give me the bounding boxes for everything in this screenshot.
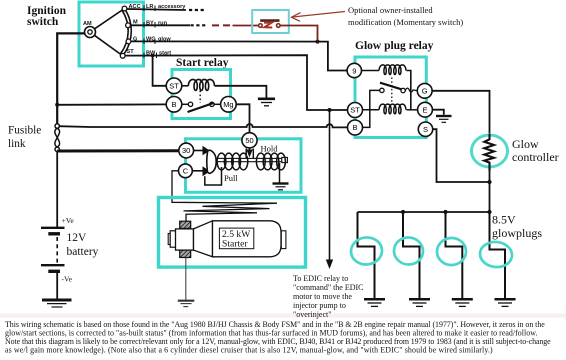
svg-text:E: E bbox=[422, 105, 427, 114]
arrow 50 bbox=[246, 150, 252, 158]
ground glowplug 2 bbox=[409, 299, 430, 306]
wire hold coil to ground bbox=[279, 163, 281, 183]
ground hold coil bbox=[273, 184, 289, 190]
ground E bbox=[436, 116, 452, 122]
glow plug bus bbox=[358, 211, 490, 213]
svg-text:glow: glow bbox=[158, 37, 171, 43]
svg-text:B: B bbox=[352, 123, 357, 132]
svg-text:C: C bbox=[183, 167, 189, 176]
contact M bbox=[126, 20, 138, 28]
contact ST bbox=[120, 49, 134, 58]
terminal AM bbox=[83, 21, 96, 38]
wire glow WG bbox=[131, 37, 348, 71]
glowplug 1 ring bbox=[350, 236, 384, 266]
wire coil1 to E node bbox=[407, 71, 411, 110]
wire S to controller leg bbox=[433, 129, 490, 182]
dotted actuator link start relay bbox=[199, 91, 201, 104]
svg-text:run: run bbox=[158, 21, 168, 27]
svg-text:controller: controller bbox=[512, 150, 559, 164]
wire battery to start relay B bbox=[57, 103, 166, 105]
battery cell 2 bbox=[41, 265, 65, 271]
glow relay terminal S bbox=[418, 122, 432, 136]
wire E to ground bbox=[432, 110, 443, 115]
node battery to start relay bbox=[55, 103, 59, 107]
wire Mg to 50 bbox=[236, 104, 249, 133]
contact G bbox=[126, 37, 137, 44]
svg-text:Glow plug relay: Glow plug relay bbox=[355, 40, 434, 52]
svg-text:12V: 12V bbox=[67, 232, 88, 244]
node bus plug2 bbox=[401, 210, 405, 214]
svg-text:Optional owner-installed: Optional owner-installed bbox=[348, 5, 433, 15]
ignition switch box bbox=[79, 2, 144, 66]
glow relay terminal E bbox=[418, 102, 433, 117]
battery lead lower bbox=[56, 272, 58, 299]
glowplugs label bbox=[492, 213, 542, 241]
svg-text:start: start bbox=[159, 51, 171, 57]
glowplug 4 ring bbox=[479, 240, 513, 268]
svg-text:modification (Momentary switch: modification (Momentary switch) bbox=[348, 17, 463, 27]
wire G to glow controller bbox=[432, 91, 489, 136]
svg-text:LR: LR bbox=[146, 4, 153, 10]
svg-text:G: G bbox=[422, 87, 428, 96]
terminal 30 bbox=[179, 143, 194, 158]
contact triangle C bbox=[203, 166, 211, 176]
svg-text:Pull: Pull bbox=[224, 173, 238, 183]
glow relay terminal B bbox=[348, 120, 363, 135]
annotation arrow bbox=[292, 12, 346, 22]
ground battery bbox=[42, 300, 72, 307]
node EDIC branch bbox=[328, 108, 332, 112]
junction dot momentary-glow bbox=[315, 40, 319, 44]
svg-text:ST: ST bbox=[350, 106, 360, 115]
svg-text:WG: WG bbox=[146, 37, 156, 43]
terminal 50 bbox=[242, 133, 257, 148]
battery cable to solenoid 30 (thick) bbox=[57, 149, 179, 152]
glowplug 2 element bbox=[403, 212, 420, 299]
shaft end cap bbox=[282, 157, 288, 162]
glow plug relay box bbox=[355, 57, 426, 138]
node S junction bbox=[487, 180, 491, 184]
battery main vertical wire bbox=[57, 33, 84, 124]
jpeg artifact band bbox=[0, 314, 566, 318]
node bus plug3 bbox=[443, 210, 447, 214]
wire left contact to B bbox=[362, 90, 379, 127]
starter motor bbox=[168, 221, 286, 258]
glow relay terminal ST bbox=[348, 103, 363, 118]
node start branch bbox=[151, 54, 155, 58]
wire momentary output red bbox=[280, 26, 317, 42]
svg-text:Fusible: Fusible bbox=[8, 125, 41, 137]
glow relay terminal g bbox=[347, 63, 361, 77]
wire C to starter (flex braid) bbox=[172, 171, 277, 221]
battery lead upper bbox=[56, 151, 58, 227]
fusible link label bbox=[8, 125, 41, 151]
pull coil bbox=[217, 153, 248, 170]
start relay terminal ST bbox=[166, 78, 182, 94]
battery dashed middle bbox=[56, 237, 58, 264]
svg-text:9: 9 bbox=[352, 66, 356, 75]
svg-text:injector pump to: injector pump to bbox=[293, 301, 346, 310]
svg-text:B: B bbox=[171, 100, 176, 109]
ground start relay bbox=[258, 99, 275, 106]
ground glowplug 3 bbox=[452, 299, 473, 306]
glowplug 1 element bbox=[358, 212, 375, 299]
wire 50 down with arrow bbox=[249, 148, 251, 151]
wire 30 to contact bbox=[194, 150, 203, 152]
hold coil bbox=[256, 153, 285, 170]
svg-text:+Ve: +Ve bbox=[62, 216, 75, 225]
glow relay coil 2 bbox=[363, 104, 418, 114]
terminal C bbox=[179, 164, 193, 178]
svg-text:30: 30 bbox=[182, 146, 190, 155]
wire branch to start relay ST bbox=[153, 56, 167, 86]
start relay coil bbox=[182, 79, 215, 90]
start relay box bbox=[172, 70, 231, 119]
svg-text:BY: BY bbox=[146, 21, 154, 27]
svg-text:ST: ST bbox=[169, 81, 179, 90]
svg-text:glowplugs: glowplugs bbox=[492, 226, 542, 240]
svg-text:To EDIC relay to: To EDIC relay to bbox=[293, 274, 348, 283]
wire M run red solid part bbox=[233, 25, 259, 27]
ignition switch rotor bbox=[94, 9, 131, 56]
svg-text:50: 50 bbox=[245, 136, 253, 145]
coil end risers at 50 bbox=[245, 149, 247, 160]
svg-text:8.5V: 8.5V bbox=[492, 213, 516, 227]
momentary switch box bbox=[252, 10, 289, 33]
svg-text:link: link bbox=[8, 138, 26, 150]
glowplug 3 element bbox=[446, 212, 463, 299]
wire M run black part bbox=[130, 21, 206, 28]
wire M run red dashed part bbox=[212, 24, 230, 26]
ground starter bbox=[178, 301, 195, 307]
node bus plug4 bbox=[487, 210, 491, 214]
svg-text:accessory: accessory bbox=[158, 4, 186, 10]
svg-text:switch: switch bbox=[27, 16, 59, 28]
wire ACC accessory bbox=[127, 4, 205, 11]
wire to EDIC relay bbox=[329, 110, 331, 262]
wire start relay coil to ground bbox=[214, 86, 266, 98]
link pull coil to contact bbox=[205, 167, 222, 185]
contact triangle 30 bbox=[203, 146, 211, 156]
arrow EDIC bbox=[326, 260, 333, 270]
starter box bbox=[159, 198, 306, 268]
svg-text:-Ve: -Ve bbox=[62, 275, 73, 284]
glow controller circle bbox=[472, 135, 508, 167]
note to EDIC relay bbox=[293, 274, 364, 319]
ground glowplug 1 bbox=[364, 299, 385, 306]
glowplug 3 ring bbox=[436, 237, 467, 266]
svg-text:Start relay: Start relay bbox=[176, 57, 229, 69]
start relay terminal B bbox=[166, 97, 182, 113]
wire starter to ground bbox=[185, 258, 187, 301]
svg-text:AM: AM bbox=[83, 21, 92, 27]
start relay terminal Mg bbox=[221, 97, 237, 113]
svg-text:"overinject": "overinject" bbox=[293, 310, 332, 319]
momentary switch bbox=[259, 21, 281, 28]
bottom paragraph bbox=[5, 320, 551, 355]
glow relay contacts and blade bbox=[380, 83, 418, 93]
wire controller to bus bbox=[489, 171, 491, 212]
glowplug 2 ring bbox=[393, 236, 424, 265]
svg-text:Starter: Starter bbox=[222, 239, 248, 250]
fusible link bbox=[55, 124, 60, 152]
solenoid box bbox=[186, 139, 302, 193]
ground glowplug 4 bbox=[495, 299, 516, 306]
svg-text:"command" the EDIC: "command" the EDIC bbox=[293, 283, 364, 292]
contact ACC bbox=[122, 4, 141, 11]
glow controller label bbox=[512, 137, 559, 164]
glow controller resistor bbox=[484, 134, 494, 171]
svg-text:battery: battery bbox=[67, 246, 99, 258]
annotation text optional modification bbox=[348, 5, 463, 27]
svg-text:Hold: Hold bbox=[261, 144, 279, 154]
glowplug 4 element bbox=[490, 212, 506, 299]
dotted actuator link glow relay bbox=[391, 78, 393, 105]
battery cell 1 bbox=[41, 228, 65, 234]
svg-text:motor to move the: motor to move the bbox=[293, 292, 352, 301]
solenoid shaft bbox=[216, 158, 282, 161]
glow relay terminal G bbox=[417, 83, 432, 98]
svg-text:Glow: Glow bbox=[512, 137, 539, 151]
start relay contacts and blade bbox=[182, 102, 221, 112]
wire start BW bbox=[125, 51, 348, 111]
wire C to contact bbox=[192, 170, 202, 172]
svg-text:as we/l gain more knowledge).: as we/l gain more knowledge). (Note also… bbox=[5, 346, 493, 355]
wire fusible to glow relay B (with hops) bbox=[59, 124, 347, 127]
solenoid plunger bbox=[207, 150, 216, 173]
svg-text:Mg: Mg bbox=[223, 100, 233, 109]
glow relay coil 1 bbox=[362, 65, 406, 75]
svg-text:ST: ST bbox=[127, 49, 135, 55]
svg-text:S: S bbox=[423, 125, 428, 134]
